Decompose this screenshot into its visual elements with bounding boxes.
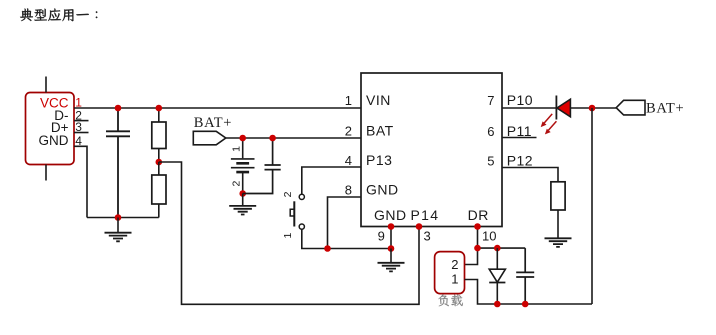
U1 pin 10 DR bottom [468,207,497,243]
node: C2 top junction [269,135,276,142]
svg-text:2: 2 [451,257,458,272]
svg-text:1: 1 [231,146,243,152]
ground symbol G3 [378,249,405,272]
diode D1 [489,248,505,304]
wire P13 to button [302,167,361,194]
push button S1 [282,191,305,238]
J1 pin 3 stub [74,120,89,134]
ground symbol G4 [545,238,572,247]
node: pin9 at chip edge [388,223,395,230]
node: C3 bottom junction [522,301,529,308]
wire pin9 to ground [390,227,392,249]
wire divider node to P14 bottom run [159,162,419,304]
svg-text:8: 8 [345,182,352,197]
node: pin10 at chip edge [474,223,481,230]
battery BT1 [231,138,255,194]
wire button pin1 to GND node [302,229,391,248]
node: battery top junction [239,135,246,142]
wire VCC to VIN [74,107,361,109]
svg-text:DR: DR [468,207,489,223]
svg-text:1: 1 [345,93,352,108]
U1 pin 9 GND bottom [374,207,407,243]
ground symbol G1 [105,218,132,242]
svg-text:P10: P10 [507,92,533,108]
ground symbol G2 [229,194,256,215]
svg-text:GND: GND [366,181,399,197]
svg-text:P14: P14 [411,207,440,223]
U1 pin 3 P14 bottom [411,207,440,243]
J1 pin 4 wire to ground rail [74,134,87,218]
svg-text:5: 5 [487,154,494,169]
U1 pin 7 P10 [487,92,533,108]
LED D2 [556,96,570,120]
svg-text:P13: P13 [366,152,392,168]
node: pin3 P14 at chip edge [416,223,423,230]
wire GND pin8 down [328,197,362,249]
svg-text:VIN: VIN [366,92,391,108]
node: LED/BAT+ junction [589,105,596,112]
U1 pin 4 P13 [345,152,393,168]
svg-text:BAT+: BAT+ [646,100,684,116]
U1 pin 6 stub wire [502,137,537,139]
svg-text:4: 4 [345,153,352,168]
op-chip U1 body [361,73,502,227]
J1 pin 2 stub [74,108,89,122]
svg-text:2: 2 [231,181,243,187]
svg-text:7: 7 [487,93,494,108]
title 典型应用一: [20,8,97,21]
svg-text:2: 2 [345,124,352,139]
capacitor C2 [243,138,281,194]
connector J1 USB VCC/D-/D+/GND [26,77,75,181]
capacitor C3 [516,248,534,304]
wire P12 to R3 [502,168,558,182]
resistor R3 [551,182,565,239]
svg-text:2: 2 [282,191,294,197]
wire BAT+ to BAT pin [226,137,361,139]
svg-text:1: 1 [282,233,294,239]
wire ground rail bottom-left [87,217,159,219]
wire DR node to diode and C3 [478,247,526,249]
U1 pin 5 P12 [487,153,533,169]
U1 pin 1 VIN [345,92,391,108]
LED light arrows [541,114,557,134]
svg-text:P12: P12 [507,153,533,169]
wire P10 to LED to BAT+ out [502,107,616,109]
node: DR junction [474,245,481,252]
svg-text:9: 9 [378,229,385,244]
wire DR pin10 down to load pin2 [465,227,478,265]
node: R1/R2 divider junction [156,159,163,166]
svg-text:GND: GND [374,207,407,223]
node: pin9 ground junction [388,245,395,252]
U1 pin 6 P11 [487,123,532,139]
node: pin8/button junction [324,245,331,252]
connector BAT+ output [616,100,684,116]
wire right vertical to bottom rail [591,108,593,304]
svg-text:6: 6 [487,124,494,139]
connector J2 load (负载) [435,252,465,294]
node: battery bottom junction [239,190,246,197]
node: C1 top junction [115,105,122,112]
U1 pin 8 GND [345,181,399,197]
svg-text:3: 3 [424,229,431,244]
svg-text:1: 1 [451,271,458,286]
capacitor C1 [106,108,130,218]
svg-text:BAT: BAT [366,122,394,138]
svg-text:BAT+: BAT+ [194,115,232,131]
node: diode bottom junction [494,301,501,308]
U1 pin 2 BAT [345,122,394,138]
node: ground rail junction [115,214,122,221]
node: diode top junction [494,245,501,252]
svg-text:GND: GND [39,133,69,148]
svg-text:10: 10 [482,229,496,244]
wire load pin1 to bottom rail [465,280,593,305]
resistor R2 [152,162,166,218]
node: R1 top junction [156,105,163,112]
resistor R1 [152,108,166,162]
label 负载 [438,294,462,306]
connector BAT+ (battery input) [193,115,232,145]
